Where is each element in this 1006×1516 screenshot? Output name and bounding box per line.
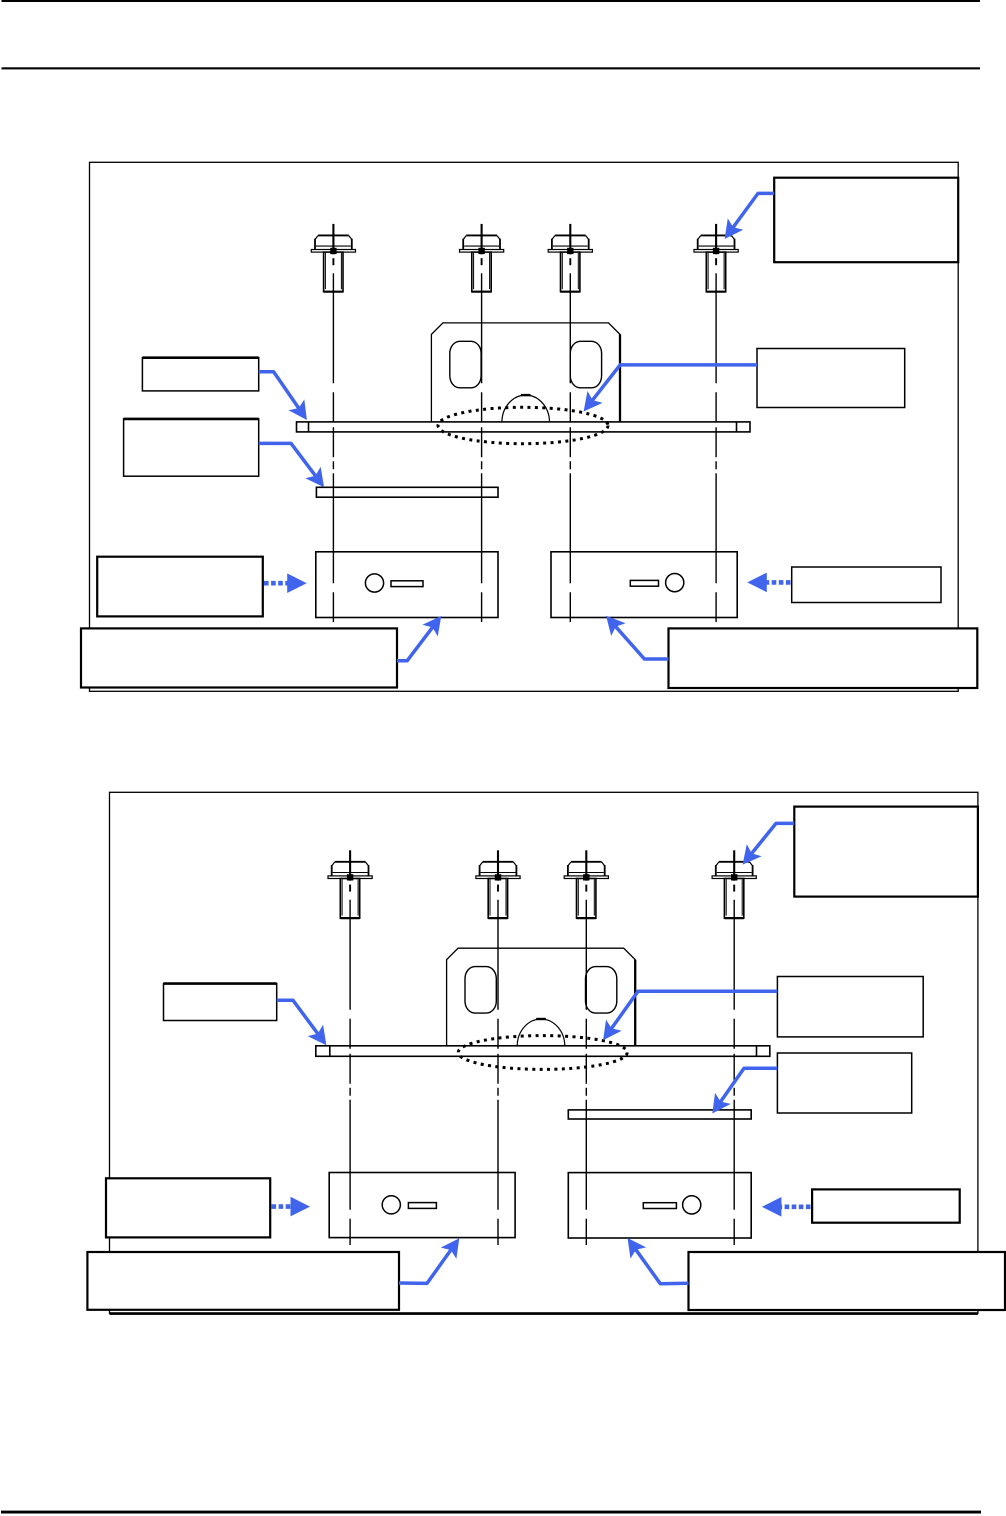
figure 1 arrow to rail plate [259,443,332,493]
figure 2 bracket [447,948,636,1048]
page footer rule [1,1511,981,1514]
figure 2 bolt 4 [712,850,756,918]
figure 1 bolt 4 [694,224,738,292]
figure 1 arrow to bolt 4 [717,193,774,244]
figure 1 label: bolt [774,178,958,263]
figure 1 label: left slider [97,557,263,617]
figure 2 bolt 2 centerline [497,900,499,1245]
figure 1 label: bracket [757,349,905,408]
figure 1 right slider [551,552,737,618]
figure 2 bolt 1 [328,850,372,918]
figure 2 bracket center bump [517,1019,565,1046]
figure 2 frame bottom thick edge [110,1312,978,1315]
figure 1 arrow to bar end [259,372,315,426]
figure 2 mounting bar [316,1046,770,1057]
figure 1 mounting bar [297,422,751,432]
figure 2 arrow to spacer plate [704,1068,777,1119]
figure 1 dotted arrow to right slider [747,573,790,593]
figure 2 label: bottom left [87,1252,399,1310]
figure 2 label: bottom right [689,1252,1006,1310]
figure 2 highlight ellipse [458,1036,627,1070]
figure 1 highlight ellipse [438,407,608,443]
figure 2 bolt 4 centerline [733,900,735,1245]
figure 1 bolt 2 [460,224,504,292]
figure 2 bolt 2 [476,850,520,918]
figure 1 label: bar left [142,358,258,391]
figure 2 label: bar left [164,984,277,1021]
figure 2 left slider [329,1173,515,1238]
figure 2 bolt 1 centerline [349,900,351,1245]
figure 2 label: right slider [812,1189,960,1222]
figure 1 frame [90,162,959,691]
figure 2 bolt 3 [564,850,608,918]
figure 2 dotted arrow to right slider [762,1197,811,1217]
figure 2 frame [110,792,978,1313]
figure 1 bolt 4 centerline [715,273,717,622]
figure 2 label: bolt [794,807,978,897]
figure 1 label: bottom left [81,628,397,687]
figure 1 bracket [431,323,620,423]
page top rule [2,0,981,2]
figure 1 bolt 3 centerline [569,273,571,622]
figure 2 arrow to bracket joint [595,991,777,1045]
figure 1 arrow to left slider bottom [397,610,449,661]
figure 2 bolt 3 centerline [585,900,587,1245]
figure 1 left slider [316,552,498,618]
figure 1 bolt 2 centerline [481,273,483,622]
figure 2 label: bracket [777,977,923,1037]
page header rule [2,67,981,69]
figure 2 arrow to bolt 4 [735,823,794,870]
figure 2 spacer plate [568,1110,751,1119]
figure 2 arrow to left slider bottom [399,1233,467,1284]
figure 1 arrow to right slider bottom [599,609,669,659]
figure 1 dotted arrow to left slider [264,573,307,593]
figure 2 dotted arrow to left slider [272,1197,311,1217]
figure 2 arrow to bar end [277,1000,334,1051]
figure 1 bracket center bump [502,395,550,422]
figure 1 bolt 1 centerline [332,273,334,622]
figure 1 label: right slider [792,567,941,603]
figure 1 label: rail plate [124,419,259,476]
figure 2 label: left slider [106,1178,270,1237]
figure 2 label: spacer plate [777,1053,911,1113]
figure 2 arrow to right slider bottom [620,1232,689,1283]
figure 1 bolt 1 [311,224,355,292]
figure 1 rail plate [316,487,498,497]
figure 1 arrow to bracket joint [576,365,757,418]
figure 1 label: bottom right [669,628,978,688]
figure 1 bolt 3 [548,224,592,292]
figure 2 right slider [568,1173,751,1238]
